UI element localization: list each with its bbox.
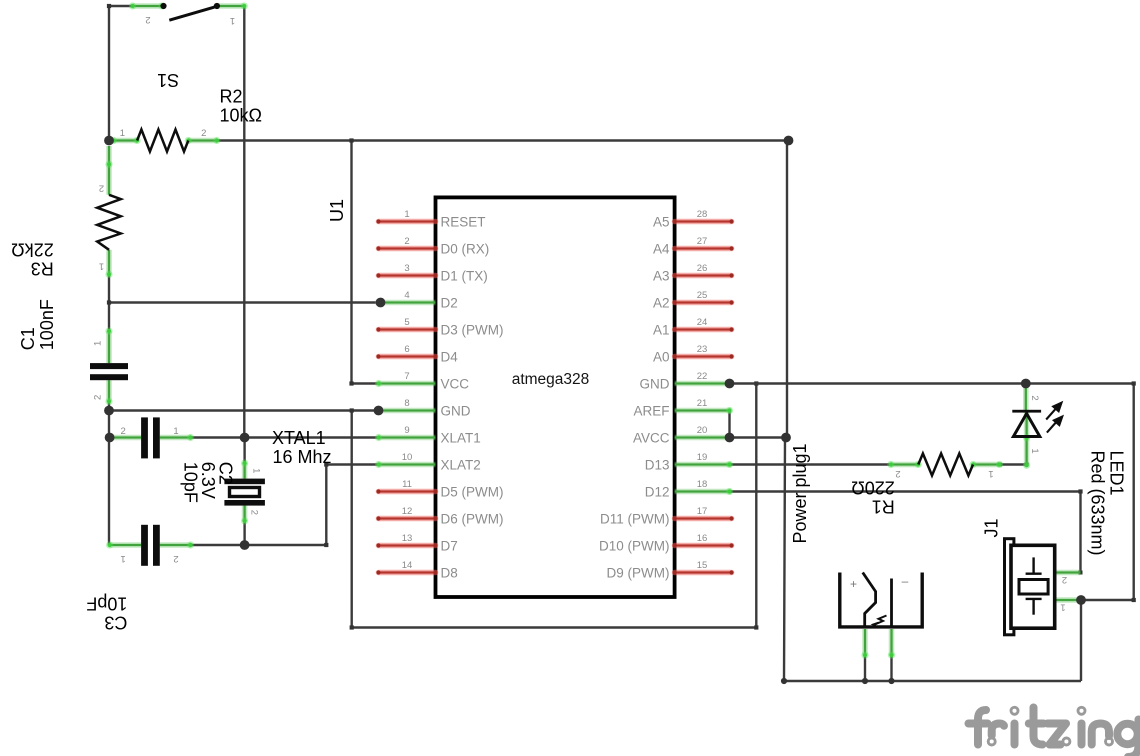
svg-text:U1: U1 — [327, 199, 347, 222]
svg-text:2: 2 — [99, 183, 104, 194]
svg-text:1: 1 — [404, 209, 409, 220]
svg-text:D1 (TX): D1 (TX) — [441, 268, 488, 283]
wire node XTAL1-bot to U1 pin 10 XLAT2 — [245, 465, 378, 546]
svg-text:GND: GND — [640, 376, 670, 391]
U1 pin 27 A4 — [653, 236, 734, 256]
svg-text:10pF: 10pF — [86, 594, 127, 614]
op-amp U1 atmega328 IC body — [436, 197, 675, 597]
svg-text:AREF: AREF — [633, 403, 669, 418]
svg-text:Power plug1: Power plug1 — [790, 443, 810, 543]
svg-text:13: 13 — [402, 533, 413, 544]
resistor R3 — [97, 146, 121, 278]
U1 pin 8 GND — [375, 398, 471, 418]
svg-text:LED1: LED1 — [1107, 451, 1127, 496]
wire C3 pin2 to node XTAL1-bot — [191, 544, 245, 546]
svg-text:2: 2 — [1062, 574, 1067, 585]
svg-text:2: 2 — [249, 510, 260, 515]
svg-text:A2: A2 — [653, 295, 670, 310]
svg-text:2: 2 — [404, 236, 409, 247]
U1 pin 20 AVCC — [633, 425, 733, 445]
svg-text:GND: GND — [441, 403, 471, 418]
wire C1 pin2 to node GND-left — [108, 402, 110, 411]
svg-text:R1: R1 — [872, 496, 895, 516]
svg-text:25: 25 — [697, 290, 708, 301]
svg-text:–: – — [902, 574, 909, 588]
svg-text:A1: A1 — [653, 322, 670, 337]
svg-text:22: 22 — [697, 371, 708, 382]
wire Power plug pin - to bottom rail — [890, 655, 892, 681]
svg-text:1: 1 — [1060, 602, 1065, 613]
wire R3 pin1 to C1 pin1 — [108, 275, 110, 332]
svg-text:A0: A0 — [653, 349, 670, 364]
svg-text:6: 6 — [404, 344, 409, 355]
wire C2 pin1 to node XTAL1-top — [191, 436, 245, 438]
svg-text:Red (633nm): Red (633nm) — [1088, 451, 1108, 556]
svg-text:21: 21 — [697, 398, 708, 409]
svg-text:26: 26 — [697, 263, 708, 274]
U1 pin 23 A0 — [653, 344, 734, 364]
U1 pin 13 D7 — [376, 533, 457, 553]
U1 pin 14 D8 — [376, 560, 457, 580]
svg-text:A5: A5 — [653, 214, 670, 229]
fritzing logo — [969, 707, 1139, 756]
svg-text:D7: D7 — [441, 538, 458, 553]
LED LED1 — [1012, 384, 1062, 469]
svg-text:C3: C3 — [104, 613, 127, 633]
wire R2 pin2 to node AVCC-drop (top rail) — [217, 139, 789, 141]
svg-text:2: 2 — [145, 14, 150, 25]
U1 pin 28 A5 — [653, 209, 734, 229]
svg-text:4: 4 — [404, 290, 409, 301]
wire U1 pin 18 D12 to J1 pin 2 — [730, 492, 1081, 573]
U1 pin 17 D11 (PWM) — [600, 506, 734, 526]
svg-text:1: 1 — [251, 468, 262, 473]
svg-text:8: 8 — [404, 398, 409, 409]
svg-text:20: 20 — [697, 425, 708, 436]
capacitor C1 — [90, 327, 128, 405]
label C3 10pF — [86, 594, 127, 633]
svg-text:C1: C1 — [18, 327, 38, 350]
svg-text:2: 2 — [1029, 395, 1040, 400]
svg-text:3: 3 — [404, 263, 409, 274]
U1 pin 12 D6 (PWM) — [376, 506, 503, 526]
wire node GND-left down to C3 pin 1 — [108, 411, 110, 546]
svg-text:D6 (PWM): D6 (PWM) — [441, 511, 504, 526]
wire Power plug pin + to bottom rail — [864, 655, 866, 681]
svg-text:15: 15 — [697, 560, 708, 571]
wire node XTAL1-top to U1 pin 9 XLAT1 — [245, 436, 378, 438]
svg-text:1: 1 — [988, 468, 993, 479]
U1 pin 6 D4 — [376, 344, 458, 364]
svg-text:A4: A4 — [653, 241, 670, 256]
U1 pin 18 D12 — [645, 479, 733, 499]
wire node LED-top to J1 pin 1 — [1026, 384, 1134, 601]
svg-text:1: 1 — [120, 128, 125, 139]
wire node GND-left to U1 pin 8 GND — [109, 409, 379, 411]
U1 pin 19 D13 — [645, 452, 733, 472]
svg-text:24: 24 — [697, 317, 708, 328]
svg-text:10pF: 10pF — [181, 462, 201, 503]
node junction dots — [104, 136, 1086, 605]
svg-text:+: + — [850, 577, 857, 591]
svg-text:AVCC: AVCC — [633, 430, 670, 445]
U1 pin 16 D10 (PWM) — [599, 533, 734, 553]
U1 pin 5 D3 (PWM) — [376, 317, 503, 337]
svg-text:10: 10 — [402, 452, 413, 463]
svg-text:1: 1 — [93, 341, 104, 346]
wire U1 pin 22 GND to node LED-top — [730, 382, 1026, 384]
U1 pin 25 A2 — [653, 290, 734, 310]
capacitor C2 — [106, 417, 194, 458]
svg-text:D12: D12 — [645, 484, 670, 499]
U1 pin 1 RESET — [376, 209, 485, 229]
U1 pin 26 A3 — [653, 263, 734, 283]
wire U1 pin 19 D13 to R1 pin 2 — [730, 463, 891, 465]
wire node XTAL1-top to XTAL1 pin 1 — [243, 438, 245, 464]
svg-text:22kΩ: 22kΩ — [11, 239, 53, 259]
svg-text:J1: J1 — [982, 518, 1002, 537]
svg-text:D10 (PWM): D10 (PWM) — [599, 538, 670, 553]
label C1 100nF — [18, 299, 57, 350]
U1 pin 15 D9 (PWM) — [607, 560, 734, 580]
svg-text:18: 18 — [697, 479, 708, 490]
svg-text:1: 1 — [99, 261, 104, 272]
svg-text:11: 11 — [402, 479, 412, 490]
svg-text:D0 (RX): D0 (RX) — [441, 241, 490, 256]
U1 pin 7 VCC — [375, 371, 469, 391]
resistor R2 — [110, 128, 221, 152]
svg-text:9: 9 — [404, 425, 409, 436]
svg-text:28: 28 — [697, 209, 708, 220]
wire GND loop under U1 — [352, 384, 757, 628]
label R1 220 ohm — [851, 477, 895, 516]
svg-text:A3: A3 — [653, 268, 670, 283]
svg-text:XTAL1: XTAL1 — [272, 428, 326, 448]
svg-text:2: 2 — [93, 395, 104, 400]
switch S1 — [129, 2, 248, 26]
wire top rail down to U1 VCC pin 7 — [352, 141, 378, 384]
svg-text:D9 (PWM): D9 (PWM) — [607, 565, 670, 580]
svg-text:1: 1 — [1029, 448, 1040, 453]
U1 pin 11 D5 (PWM) — [376, 479, 503, 499]
svg-text:1: 1 — [173, 426, 178, 437]
U1 pin 4 D2 — [375, 290, 458, 310]
svg-text:12: 12 — [402, 506, 413, 517]
U1 pin 2 D0 (RX) — [376, 236, 489, 256]
svg-text:D4: D4 — [441, 349, 459, 364]
wire node R3-C1 to U1 pin 4 D2 — [109, 301, 381, 303]
svg-text:16 Mhz: 16 Mhz — [273, 447, 332, 467]
svg-text:D2: D2 — [441, 295, 458, 310]
svg-text:100nF: 100nF — [37, 299, 57, 350]
wire J1 pin 1 down to bottom rail — [1080, 600, 1082, 681]
capacitor C3 — [106, 525, 194, 566]
svg-text:RESET: RESET — [441, 214, 486, 229]
svg-text:S1: S1 — [157, 70, 179, 90]
svg-text:VCC: VCC — [441, 376, 470, 391]
wire top rail down to node AVCC-drop — [786, 141, 788, 438]
wire R1 pin 1 to LED1 pin 1 — [1000, 463, 1027, 465]
svg-text:10kΩ: 10kΩ — [220, 106, 262, 126]
svg-text:D13: D13 — [645, 457, 670, 472]
wire S1 pin1 down to node XTAL1-top — [243, 7, 245, 438]
power plug Power plug1 — [840, 573, 922, 659]
wire node AVCC to AVCC-drop — [730, 436, 787, 438]
svg-text:1: 1 — [120, 553, 125, 564]
U1 pin 3 D1 (TX) — [376, 263, 487, 283]
speaker J1 — [1005, 539, 1082, 635]
U1 pin 24 A1 — [653, 317, 734, 337]
svg-text:D11 (PWM): D11 (PWM) — [600, 511, 670, 526]
svg-text:D3 (PWM): D3 (PWM) — [441, 322, 504, 337]
svg-text:5: 5 — [404, 317, 409, 328]
svg-text:19: 19 — [697, 452, 708, 463]
svg-text:D5 (PWM): D5 (PWM) — [441, 484, 504, 499]
U1 pin 10 XLAT2 — [375, 452, 481, 472]
U1 pin 9 XLAT1 — [375, 425, 481, 445]
svg-text:atmega328: atmega328 — [512, 371, 590, 388]
crystal XTAL1 — [224, 459, 265, 524]
svg-text:2: 2 — [173, 553, 178, 564]
svg-text:17: 17 — [697, 506, 708, 517]
svg-text:2: 2 — [895, 468, 900, 479]
wire junction-A to S1 pin 2 — [109, 6, 133, 141]
svg-text:R3: R3 — [31, 258, 54, 278]
wire node AVCC-drop down to bottom rail — [784, 438, 1081, 682]
wire XTAL1 pin 2 to node XTAL1-bot — [243, 521, 245, 545]
svg-text:XLAT1: XLAT1 — [441, 430, 481, 445]
svg-text:2: 2 — [201, 128, 206, 139]
label C2 6.3V 10pF — [181, 462, 236, 503]
svg-text:D8: D8 — [441, 565, 458, 580]
svg-text:23: 23 — [697, 344, 708, 355]
resistor R1 — [887, 454, 1003, 480]
U1 pin 22 GND — [640, 371, 734, 391]
svg-text:27: 27 — [697, 236, 708, 247]
svg-text:220Ω: 220Ω — [851, 477, 895, 497]
svg-text:1: 1 — [230, 15, 235, 26]
label R3 22k — [11, 239, 53, 278]
U1 pin 21 AREF — [633, 398, 733, 418]
svg-text:16: 16 — [697, 533, 708, 544]
wire U1 pin 21 AREF down to node AVCC — [728, 411, 730, 438]
svg-text:2: 2 — [120, 426, 125, 437]
svg-text:14: 14 — [402, 560, 413, 571]
svg-text:R2: R2 — [220, 87, 243, 107]
svg-text:XLAT2: XLAT2 — [441, 457, 481, 472]
label LED1 Red (633nm) — [1088, 451, 1127, 556]
svg-text:7: 7 — [404, 371, 409, 382]
